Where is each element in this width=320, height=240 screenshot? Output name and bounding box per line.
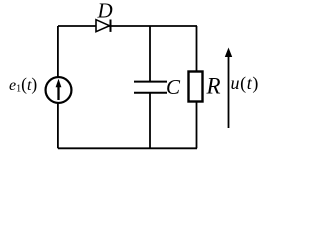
svg-text:e1(t): e1(t) [9, 74, 37, 95]
svg-text:R: R [206, 74, 221, 99]
svg-text:C: C [166, 75, 181, 99]
svg-text:D: D [97, 0, 113, 22]
svg-text:u(t): u(t) [231, 73, 259, 94]
